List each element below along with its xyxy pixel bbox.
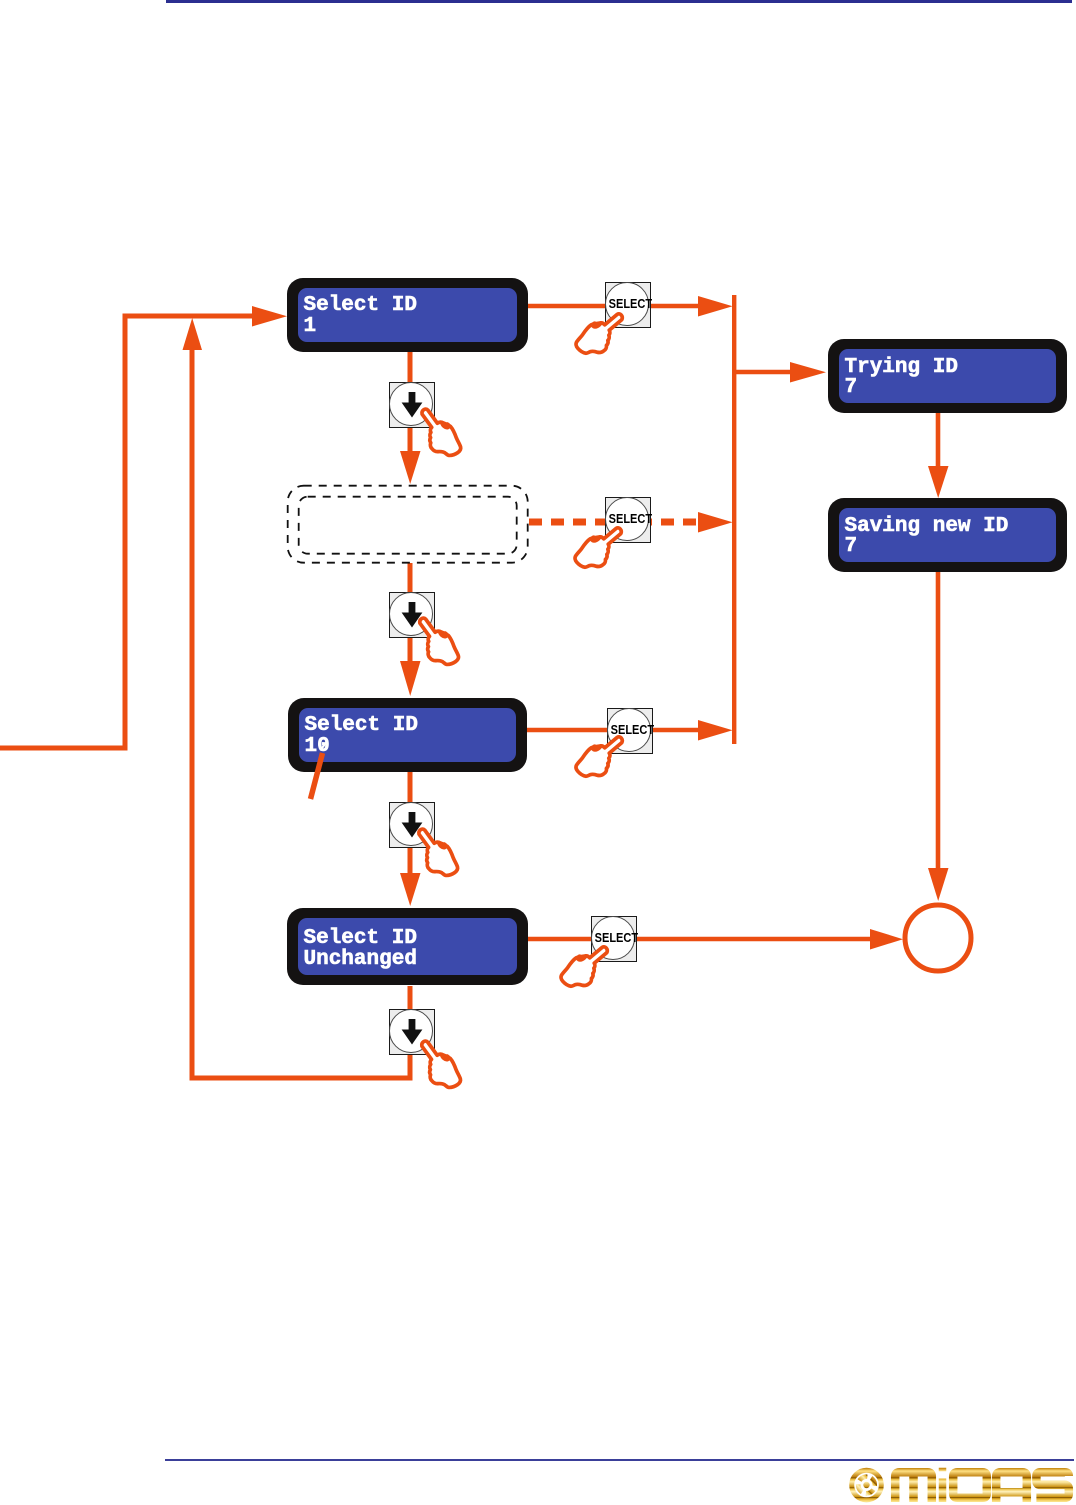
arrowhead up joining loop bbox=[183, 318, 203, 350]
wire: LCD4 down to key D bbox=[408, 986, 413, 1009]
arrowhead into junction bar (row3) bbox=[698, 720, 733, 741]
logo letter M bbox=[895, 1472, 932, 1502]
top blue header bar bbox=[166, 0, 1072, 3]
wire: LCD1 down to key A bbox=[408, 352, 413, 382]
arrowhead into junction bar (row1) bbox=[698, 296, 733, 317]
logo emblem bbox=[852, 1470, 882, 1500]
arrowhead into LCD3 bbox=[400, 661, 421, 696]
logo letter D bbox=[953, 1472, 987, 1498]
dashed placeholder screen inner bbox=[299, 497, 517, 554]
wire: Trying ID down to Saving new ID bbox=[936, 413, 941, 467]
hand pressing key B bbox=[411, 617, 465, 666]
arrowhead into LCD1 bbox=[252, 306, 287, 327]
wire: bottom return horizontal bbox=[190, 1076, 413, 1081]
hand pressing SELECT4 bbox=[561, 947, 607, 986]
hand pressing key D bbox=[413, 1040, 467, 1089]
wire: key A down to dashed screen bbox=[408, 426, 413, 452]
hand pressing key C bbox=[410, 828, 464, 877]
wire: left outer loop vertical bbox=[123, 316, 128, 751]
logo letter S bbox=[1036, 1472, 1068, 1498]
arrowhead into end circle left bbox=[870, 929, 903, 950]
arrowhead into Saving new ID bbox=[928, 466, 949, 498]
wire: SELECT1 to junction bar bbox=[650, 304, 700, 308]
wire: dashed screen down to key B bbox=[408, 563, 413, 592]
LCD3 Select ID 10 bbox=[288, 698, 527, 772]
arrowhead into Trying ID bbox=[790, 362, 826, 383]
end circle terminator bbox=[905, 905, 971, 971]
wire: key C down to LCD4 bbox=[408, 846, 413, 874]
leader line from digit 10 bbox=[302, 750, 332, 806]
dashed placeholder screen outer bbox=[288, 486, 528, 563]
hand pressing SELECT3 bbox=[576, 737, 622, 776]
arrowhead into dashed screen bbox=[400, 451, 421, 484]
hand pressing SELECT2 bbox=[575, 528, 621, 567]
wire: LCD3 right to SELECT3 bbox=[527, 728, 607, 732]
wire: inner return loop vertical bbox=[190, 350, 195, 1078]
wire: LCD4 right to SELECT4 bbox=[528, 937, 591, 941]
wire: loop top horizontal into LCD1 bbox=[123, 314, 255, 319]
wire: SELECT4 to end circle bbox=[635, 937, 872, 941]
LCD5 Trying ID 7 bbox=[828, 339, 1067, 413]
SELECT key 3 bbox=[607, 708, 653, 754]
logo letter A bbox=[996, 1472, 1027, 1502]
slashed zero mark in 10 bbox=[317, 737, 331, 753]
wire: loop-in from page left bbox=[0, 746, 125, 751]
arrowhead into junction bar (row2) bbox=[698, 512, 733, 533]
wire: junction bar to Trying ID bbox=[734, 370, 792, 374]
scroll key D bbox=[389, 1009, 435, 1055]
dashed wire: dashed screen to SELECT2 and junction bar bbox=[529, 519, 700, 526]
wire: LCD1 right to SELECT1 bbox=[528, 304, 605, 308]
scroll key B bbox=[389, 592, 435, 638]
SELECT key 4 bbox=[591, 916, 637, 962]
SELECT key 1 bbox=[605, 282, 651, 328]
LCD4 Select ID Unchanged bbox=[287, 908, 528, 985]
arrowhead into LCD4 bbox=[400, 873, 421, 906]
wire: LCD3 down to key C bbox=[408, 772, 413, 802]
wire: key D down to bottom return bbox=[408, 1053, 413, 1081]
MIDAS logo bbox=[843, 1464, 1075, 1505]
LCD6 Saving new ID 7 bbox=[828, 498, 1067, 572]
wire: Saving new ID down to end circle bbox=[936, 572, 941, 869]
wire: key B down to LCD3 bbox=[408, 636, 413, 662]
scroll key A bbox=[389, 382, 435, 428]
wire: junction vertical bar bbox=[732, 295, 736, 744]
LCD1 Select ID 1 bbox=[287, 278, 528, 352]
hand pressing SELECT1 bbox=[576, 314, 622, 353]
bottom rule bbox=[165, 1459, 1074, 1461]
wire: SELECT3 to junction bar bbox=[651, 728, 700, 732]
arrowhead into end circle top bbox=[928, 868, 949, 901]
hand pressing key A bbox=[414, 408, 468, 457]
SELECT key 2 bbox=[605, 497, 651, 543]
scroll key C bbox=[389, 802, 435, 848]
logo letter i bbox=[939, 1468, 947, 1502]
